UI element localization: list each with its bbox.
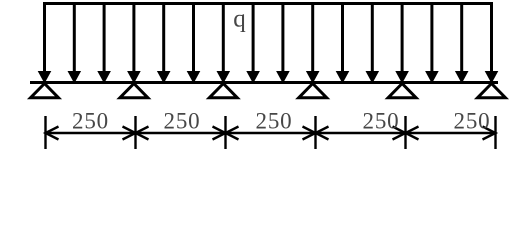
dimension label 250 (segment 2) xyxy=(164,109,201,134)
dim arrow pointing right at tick 4 xyxy=(303,127,316,140)
dim arrow pointing right at tick 2 xyxy=(123,127,136,140)
load arrow 2 xyxy=(68,4,82,84)
load arrow 6 xyxy=(187,4,201,84)
load arrow 4 xyxy=(127,4,141,84)
dimension label 250 (segment 3) xyxy=(256,109,293,134)
svg-text:250: 250 xyxy=(363,109,400,134)
dim arrow pointing right at tick 6 xyxy=(483,127,496,140)
dimension label 250 (segment 5) xyxy=(454,109,491,134)
dim arrow pointing left at tick 3 xyxy=(226,127,239,140)
dimension tick 2 xyxy=(134,116,136,149)
dimension tick 4 xyxy=(314,116,316,149)
dimension tick 5 xyxy=(404,116,406,149)
load arrow 8 xyxy=(246,4,260,84)
support A (pin) xyxy=(31,84,59,98)
distributed load top line xyxy=(43,2,493,5)
svg-text:250: 250 xyxy=(454,109,491,134)
dimension tick 6 xyxy=(494,116,496,149)
dim arrow pointing left at tick 1 xyxy=(46,127,59,140)
support F (pin) xyxy=(478,84,506,98)
dimension label 250 (segment 4) xyxy=(363,109,400,134)
load arrow 10 xyxy=(306,4,320,84)
svg-text:q: q xyxy=(233,6,246,33)
svg-text:250: 250 xyxy=(256,109,293,134)
support E (pin) xyxy=(388,84,416,98)
dim arrow pointing left at tick 4 xyxy=(316,127,329,140)
dimension tick 3 xyxy=(224,116,226,149)
dimension tick 1 xyxy=(44,116,46,149)
svg-text:250: 250 xyxy=(164,109,201,134)
load arrow 7 xyxy=(217,4,231,84)
load arrow 1 xyxy=(38,4,52,84)
dim arrow pointing left at tick 2 xyxy=(136,127,149,140)
load arrow 14 xyxy=(425,4,439,84)
load arrow 11 xyxy=(336,4,350,84)
load arrow 3 xyxy=(97,4,111,84)
load arrow 13 xyxy=(395,4,409,84)
support D (pin) xyxy=(299,84,327,98)
dim arrow pointing right at tick 3 xyxy=(213,127,226,140)
load arrow 16 xyxy=(485,4,499,84)
beam xyxy=(30,81,498,84)
dim arrow pointing left at tick 5 xyxy=(406,127,419,140)
support C (pin) xyxy=(209,84,237,98)
load arrow 9 xyxy=(276,4,290,84)
load label q xyxy=(233,6,246,33)
dim arrow pointing right at tick 5 xyxy=(393,127,406,140)
load arrow 12 xyxy=(366,4,380,84)
load arrow 5 xyxy=(157,4,171,84)
dimension label 250 (segment 1) xyxy=(72,109,109,134)
dimension line xyxy=(46,132,496,134)
svg-text:250: 250 xyxy=(72,109,109,134)
support B (pin) xyxy=(120,84,148,98)
load arrow 15 xyxy=(455,4,469,84)
